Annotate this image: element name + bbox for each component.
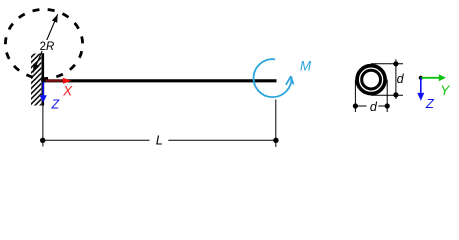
svg-text:M: M	[300, 58, 312, 73]
svg-text:Z: Z	[51, 97, 60, 111]
svg-text:L: L	[156, 132, 163, 147]
svg-text:2R: 2R	[40, 41, 55, 53]
svg-text:X: X	[62, 83, 73, 98]
svg-text:d: d	[397, 72, 405, 86]
svg-text:Z: Z	[425, 96, 435, 111]
svg-text:d: d	[370, 100, 378, 114]
svg-text:Y: Y	[440, 83, 450, 98]
